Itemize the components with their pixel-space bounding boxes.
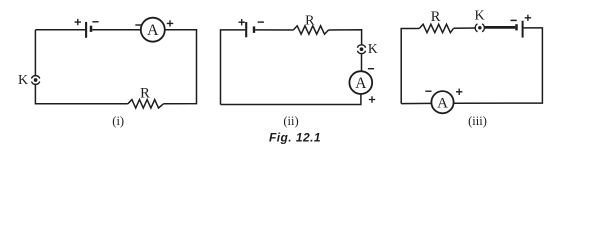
svg-text:A: A [147,22,159,39]
svg-text:(i): (i) [112,114,124,128]
svg-text:K: K [368,41,378,56]
svg-text:Fig. 12.1: Fig. 12.1 [269,130,321,144]
svg-text:A: A [437,95,448,111]
svg-text:K: K [18,73,28,88]
svg-text:A: A [355,75,367,92]
svg-text:K: K [475,9,485,24]
svg-text:R: R [140,85,150,101]
svg-text:(ii): (ii) [283,114,298,128]
svg-text:(iii): (iii) [468,114,487,128]
svg-text:R: R [431,9,441,25]
svg-text:R: R [305,13,315,28]
